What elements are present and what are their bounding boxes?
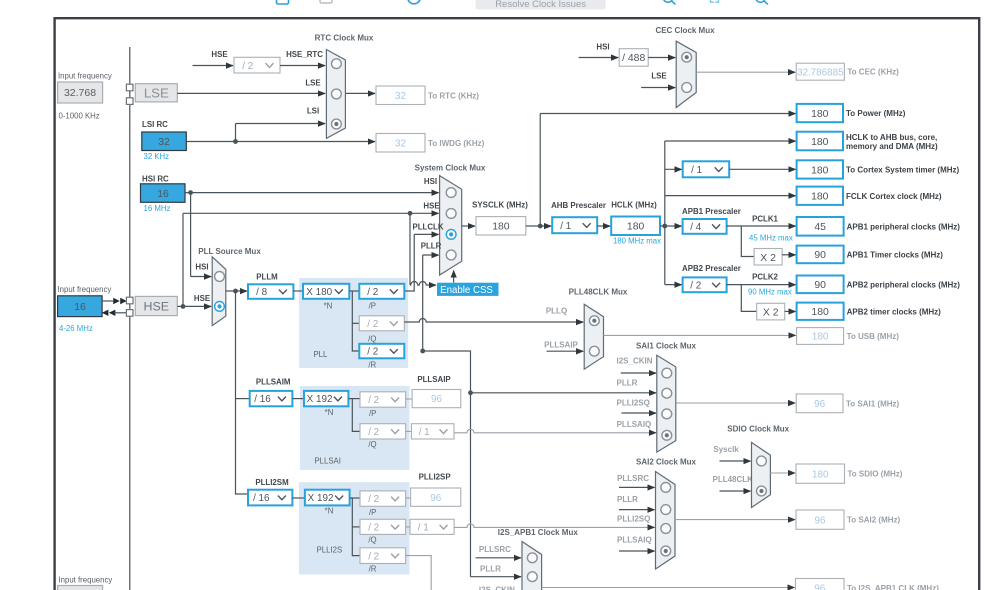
svg-text:PLLQ: PLLQ (546, 307, 567, 316)
svg-text:PLL48CLK: PLL48CLK (713, 475, 754, 484)
svg-text:PLLSAIQ: PLLSAIQ (617, 420, 652, 429)
svg-text:LSE: LSE (144, 85, 169, 100)
wire rail to cortex divider (665, 168, 682, 170)
svg-text:*N: *N (324, 301, 333, 310)
svg-text:/ 2: / 2 (368, 395, 379, 406)
svg-text:To SDIO (MHz): To SDIO (MHz) (848, 470, 903, 479)
svg-text:32.786885: 32.786885 (797, 67, 844, 78)
PLLSAIP box 96 (412, 390, 461, 408)
junction SYSCLK (538, 224, 543, 229)
svg-text:LSI RC: LSI RC (142, 120, 168, 129)
svg-text:To CEC (KHz): To CEC (KHz) (847, 68, 899, 77)
svg-text:/Q: /Q (368, 334, 376, 343)
APB2 peripheral box 90 (797, 276, 844, 294)
svg-text:PLLI2SQ: PLLI2SQ (617, 515, 650, 524)
toolbar icon fragment 3 (blue circle) (408, 0, 421, 4)
svg-text:APB1 Timer clocks (MHz): APB1 Timer clocks (MHz) (847, 250, 944, 259)
svg-text:AHB Prescaler: AHB Prescaler (551, 201, 606, 210)
svg-text:To IWDG (KHz): To IWDG (KHz) (428, 139, 485, 148)
toolbar Resolve Clock Issues button (476, 0, 606, 9)
wire P to PLLSAIP box (406, 398, 413, 400)
wire RTC mux to RTC box (346, 92, 375, 94)
svg-text:HSE: HSE (144, 300, 169, 314)
svg-text:PLLSAIP: PLLSAIP (544, 341, 578, 350)
junction HSE out (181, 304, 186, 309)
svg-text:/ 16: / 16 (253, 493, 270, 504)
wire PLLR to SAI1 mux (471, 392, 657, 394)
wire PLL48CLK stub to SDIO mux (720, 490, 751, 492)
PLL branch wires (349, 290, 359, 292)
svg-text:/Q: /Q (368, 440, 376, 449)
svg-text:PLLI2SM: PLLI2SM (255, 478, 289, 487)
svg-text:/ 1: / 1 (560, 221, 571, 232)
svg-text:96: 96 (814, 584, 825, 590)
SDIO clock mux (752, 442, 771, 507)
PLLR rail down wire (470, 393, 472, 577)
wire LSE to RTC mux (177, 92, 325, 94)
wire rail to PLLSAIM (236, 398, 250, 400)
svg-text:APB2 timer clocks (MHz): APB2 timer clocks (MHz) (847, 307, 942, 316)
RTC clock mux (326, 50, 345, 139)
PLL Q dropdown /2 (359, 316, 404, 331)
wire APB2 to X2 (741, 285, 756, 312)
svg-text:Input frequency: Input frequency (58, 285, 112, 294)
LSE source box (135, 84, 177, 102)
HCLK to AHB box 180 (797, 132, 843, 151)
CEC divider box /488 (619, 49, 648, 66)
svg-text:90: 90 (814, 280, 826, 291)
wire cortex divider to box (729, 168, 795, 170)
svg-text:PLL Source Mux: PLL Source Mux (198, 247, 261, 256)
svg-text:PLLSRC: PLLSRC (617, 474, 649, 483)
APB2 timer box 180 (797, 303, 844, 320)
svg-text:PLLSAIP: PLLSAIP (417, 375, 450, 384)
wire PLLSAIM to N (292, 398, 304, 400)
SAI2 clock mux (656, 472, 676, 570)
svg-text:SAI2 Clock Mux: SAI2 Clock Mux (636, 458, 697, 467)
svg-text:HCLK to AHB bus, core,: HCLK to AHB bus, core, (846, 133, 937, 142)
wire APB1 to X2 (741, 226, 754, 257)
wire I2S mux to I2S box (542, 587, 795, 589)
wire APB1 to box (727, 225, 796, 227)
wire /2 to RTC mux (280, 65, 325, 67)
I2S_APB1 clock mux (522, 542, 542, 590)
wire PLL /P to PLLCLK input (404, 234, 414, 291)
To Cortex box 180 (797, 160, 843, 178)
junction PLLM rail (233, 289, 238, 294)
PLLM dropdown /8 (248, 284, 293, 299)
svg-text:180: 180 (811, 137, 829, 148)
svg-text:96: 96 (814, 399, 825, 410)
wire PLLSAIP stub to PLL48 mux (547, 350, 584, 352)
svg-text:PLLI2SQ: PLLI2SQ (617, 399, 650, 408)
svg-text:90 MHz max: 90 MHz max (748, 288, 792, 297)
PLLSAI N dropdown X192 (304, 391, 348, 406)
wire PLLSAIQ stub to SAI2 (619, 550, 655, 552)
svg-text:X 192: X 192 (308, 493, 334, 504)
HCLK box 180 (611, 217, 660, 236)
wire PLL48 mux to USB (604, 334, 796, 336)
To SAI2 box 96 (796, 510, 844, 529)
LSE port squares (126, 84, 133, 91)
svg-text:RTC Clock Mux: RTC Clock Mux (315, 34, 374, 43)
svg-text:/R: /R (369, 565, 377, 574)
PLLSAI P dropdown /2 (360, 392, 406, 407)
SAI1 clock mux (657, 355, 676, 452)
svg-text:PLLSAI: PLLSAI (314, 456, 340, 465)
svg-text:PLL48CLK Mux: PLL48CLK Mux (569, 288, 628, 297)
wire PLL /R to PLLR input (422, 255, 424, 351)
PLLSAIM dropdown /16 (250, 391, 293, 406)
APB1 timer box 90 (797, 246, 844, 264)
System clock mux (440, 176, 462, 275)
svg-text:I2S_APB1 Clock Mux: I2S_APB1 Clock Mux (498, 528, 579, 537)
toolbar icon fragment 2 (gray square) (320, 0, 332, 3)
PLLSAI panel (300, 386, 409, 470)
wire SAI2 mux to SAI2 box (675, 519, 795, 521)
wire PLL mux to PLLM (226, 290, 247, 292)
svg-text:96: 96 (430, 493, 441, 504)
LSI RC box 32 (142, 132, 187, 151)
svg-text:/Q: /Q (368, 536, 376, 545)
svg-text:PLLSAIM: PLLSAIM (256, 378, 291, 387)
wire Enable CSS up arrow (453, 271, 455, 283)
APB2 X2 box (757, 303, 785, 320)
svg-text:180: 180 (627, 222, 645, 233)
svg-text:APB1 Prescaler: APB1 Prescaler (682, 207, 741, 216)
svg-text:PLLCLK: PLLCLK (412, 223, 443, 232)
junction LSI (233, 139, 238, 144)
wire HSI RC to system mux (185, 192, 439, 194)
svg-text:180 MHz max: 180 MHz max (613, 237, 661, 246)
PLLI2S panel (299, 482, 409, 574)
svg-text:CEC Clock Mux: CEC Clock Mux (655, 26, 715, 35)
svg-text:HSE: HSE (211, 50, 227, 59)
svg-text:/ 1: / 1 (419, 427, 430, 438)
PLL N dropdown X180 (303, 284, 349, 299)
wire PLLR to SAI rail (423, 351, 471, 393)
HSI RC box 16 (141, 184, 186, 203)
bottom input frequency box (cut) (58, 586, 103, 590)
svg-text:/ 2: / 2 (242, 61, 253, 72)
PLLSAI Q post divider /1 (411, 424, 454, 439)
wire I2S_CKIN stub to SAI1 (621, 372, 656, 374)
wire LSI RC to IWDG (186, 141, 375, 143)
svg-text:32: 32 (395, 91, 406, 102)
svg-text:PLLM: PLLM (256, 273, 278, 282)
To I2S_APB1 box 96 (796, 579, 845, 590)
toolbar icon fragment 1 (blue square) (277, 0, 289, 4)
svg-text:I2S_CKIN: I2S_CKIN (479, 586, 515, 590)
svg-text:PLLSRC: PLLSRC (479, 545, 511, 554)
svg-text:PLL: PLL (313, 350, 328, 359)
PLLI2S Q post divider /1 (410, 519, 454, 534)
svg-text:/ 1: / 1 (418, 522, 429, 533)
svg-text:HSE: HSE (194, 294, 210, 303)
toolbar icon magnifier 2 (756, 0, 766, 2)
svg-text:HSI: HSI (596, 43, 609, 52)
svg-text:32.768: 32.768 (64, 87, 96, 99)
svg-text:PLLR: PLLR (617, 379, 638, 388)
wire PLLQ to PLL48 mux (404, 319, 583, 322)
svg-text:/ 2: / 2 (368, 494, 379, 505)
svg-text:32 KHz: 32 KHz (144, 152, 170, 161)
svg-text:PCLK2: PCLK2 (752, 272, 778, 281)
wire PLLSRC stub to SAI2 (619, 486, 655, 488)
Enable CSS button (437, 283, 499, 296)
toolbar icon brackets (711, 0, 719, 2)
svg-text:90: 90 (814, 250, 826, 261)
HSE port squares (126, 297, 133, 304)
PLLSAI Q dropdown /2 (360, 424, 406, 439)
wire HSI to /488 (579, 57, 619, 59)
PLLI2S P dropdown /2 (360, 491, 406, 506)
wire X2 to APB2 timer box (785, 310, 796, 312)
svg-text:PLLR: PLLR (480, 565, 501, 574)
svg-text:PCLK1: PCLK1 (752, 215, 778, 224)
svg-text:/ 8: / 8 (256, 287, 267, 298)
RTC HSE divider dropdown /2 (234, 57, 280, 73)
svg-text:/ 2: / 2 (368, 522, 379, 533)
svg-text:16: 16 (157, 189, 169, 200)
svg-text:X 2: X 2 (760, 253, 776, 264)
svg-text:Input frequency: Input frequency (58, 72, 112, 81)
svg-text:To RTC (KHz): To RTC (KHz) (428, 91, 479, 100)
input rail wire (129, 47, 131, 590)
APB2 prescaler dropdown /2 (683, 277, 727, 292)
svg-text:Enable CSS: Enable CSS (440, 285, 493, 296)
wire HSE to system mux (182, 213, 184, 306)
svg-text:180: 180 (811, 165, 829, 176)
svg-text:HCLK (MHz): HCLK (MHz) (611, 201, 657, 210)
svg-text:/ 16: / 16 (254, 394, 271, 405)
wire PLLI2SM to N (292, 497, 305, 499)
svg-text:96: 96 (431, 394, 442, 405)
junction HSE riser top (408, 211, 413, 216)
To Power box 180 (797, 104, 843, 122)
svg-text:/P: /P (369, 409, 376, 418)
svg-text:System Clock Mux: System Clock Mux (415, 164, 486, 173)
svg-text:X 192: X 192 (307, 394, 333, 405)
junction HSI (188, 190, 193, 195)
junction PLLR (420, 349, 425, 354)
svg-text:180: 180 (812, 332, 829, 343)
svg-text:4-26 MHz: 4-26 MHz (59, 324, 93, 333)
svg-text:16: 16 (74, 302, 86, 313)
APB1 prescaler dropdown /4 (683, 219, 727, 234)
svg-text:/ 2: / 2 (368, 427, 379, 438)
svg-text:SDIO Clock Mux: SDIO Clock Mux (727, 425, 789, 434)
svg-text:180: 180 (492, 222, 510, 233)
PLLI2S branch wires (350, 497, 360, 499)
HSE input frequency box 16 (58, 296, 103, 317)
svg-text:PLLR: PLLR (421, 242, 442, 251)
wire Sysclk stub to SDIO mux (720, 460, 751, 462)
junction HCLK (662, 224, 667, 229)
CEC clock mux (676, 41, 696, 107)
svg-text:X 2: X 2 (763, 308, 779, 319)
svg-text:180: 180 (811, 307, 829, 318)
wire PLLSAIQ to SAI1 mux (454, 429, 656, 433)
PLLM rail wire (236, 291, 249, 494)
svg-text:PLLI2SP: PLLI2SP (419, 472, 451, 481)
svg-text:45: 45 (814, 222, 826, 233)
PLLI2S Q dropdown /2 (360, 519, 406, 534)
wire HSI to PLL mux (190, 193, 192, 277)
svg-text:LSE: LSE (305, 79, 320, 88)
svg-text:APB2 peripheral clocks (MHz): APB2 peripheral clocks (MHz) (847, 280, 961, 289)
wire CEC mux to CEC box (696, 71, 795, 73)
svg-text:PLLI2S: PLLI2S (317, 546, 343, 555)
wire rail to FCLK box (665, 195, 796, 197)
wire SDIO mux to SDIO box (770, 472, 795, 474)
svg-text:*N: *N (325, 408, 334, 417)
svg-text:/P: /P (369, 508, 376, 517)
svg-text:To SAI1 (MHz): To SAI1 (MHz) (846, 399, 900, 408)
svg-text:To USB (MHz): To USB (MHz) (847, 332, 900, 341)
svg-text:FCLK Cortex clock (MHz): FCLK Cortex clock (MHz) (846, 192, 942, 201)
svg-text:96: 96 (815, 515, 826, 526)
To SAI1 box 96 (796, 394, 843, 413)
svg-text:Sysclk: Sysclk (713, 445, 739, 454)
wire rail to HCLK AHB box (665, 140, 796, 142)
To USB box 180 (797, 328, 844, 345)
svg-text:/R: /R (368, 361, 376, 370)
svg-text:/ 2: / 2 (367, 319, 378, 330)
svg-text:180: 180 (812, 469, 829, 480)
svg-text:/ 2: / 2 (368, 551, 379, 562)
wire LSE to CEC mux (641, 87, 675, 89)
wire PLLR to I2S mux (471, 576, 522, 578)
svg-text:0-1000 KHz: 0-1000 KHz (59, 112, 100, 121)
svg-text:LSE: LSE (651, 72, 666, 81)
svg-text:/ 488: / 488 (622, 53, 645, 64)
PLL panel (299, 278, 408, 368)
svg-text:/ 4: / 4 (690, 222, 701, 233)
svg-text:/ 2: / 2 (367, 287, 378, 298)
LSE input frequency box 32.768 (58, 82, 103, 103)
PLLI2S R dropdown /2 (360, 548, 406, 564)
SYSCLK box 180 (476, 217, 526, 235)
svg-text:SAI1 Clock Mux: SAI1 Clock Mux (636, 341, 697, 350)
svg-text:To Power (MHz): To Power (MHz) (846, 109, 906, 118)
AHB prescaler dropdown /1 (552, 217, 597, 233)
svg-text:APB1 peripheral clocks (MHz): APB1 peripheral clocks (MHz) (847, 222, 961, 231)
HSE double arrows left (102, 310, 116, 316)
svg-text:/P: /P (369, 301, 376, 310)
svg-text:Resolve Clock Issues: Resolve Clock Issues (495, 0, 586, 10)
svg-text:To SAI2 (MHz): To SAI2 (MHz) (847, 516, 901, 525)
svg-text:To I2S_APB1 CLK (MHz): To I2S_APB1 CLK (MHz) (847, 584, 939, 590)
cortex divider dropdown /1 (683, 161, 730, 177)
svg-text:HSI: HSI (195, 262, 208, 271)
wire system mux to SYSCLK box (462, 225, 475, 227)
svg-text:I2S_CKIN: I2S_CKIN (617, 357, 653, 366)
svg-text:PLLR: PLLR (617, 495, 638, 504)
svg-text:Input frequency: Input frequency (59, 576, 113, 585)
svg-text:HSE: HSE (423, 202, 439, 211)
wire HSE box to PLL mux (177, 305, 211, 307)
wire SYSCLK to AHB prescaler (526, 225, 551, 227)
To IWDG box 32 (376, 134, 425, 153)
PLLI2SP box 96 (411, 488, 461, 506)
wire PLLI2SQ stub to SAI1 (622, 412, 657, 414)
svg-text:180: 180 (811, 109, 829, 120)
wire LSI riser to RTC mux (235, 124, 237, 142)
wire APB2 to box (727, 284, 796, 286)
svg-text:/ 1: / 1 (691, 165, 702, 176)
svg-text:/ 2: / 2 (367, 347, 378, 358)
wire Q to /1 (406, 430, 412, 432)
svg-text:To Cortex System timer (MHz): To Cortex System timer (MHz) (846, 165, 960, 174)
wire P to PLLI2SP box (406, 497, 411, 499)
wire AHB to HCLK box (597, 225, 610, 227)
To CEC box (796, 63, 844, 80)
APB1 X2 box (754, 249, 782, 266)
PLLI2S N dropdown X192 (305, 490, 350, 506)
svg-text:32: 32 (158, 137, 170, 148)
PLL R dropdown /2 (359, 344, 404, 359)
wire SAI1 mux to SAI1 box (677, 402, 796, 404)
svg-text:APB2 Prescaler: APB2 Prescaler (682, 264, 741, 273)
wire PLLSRC stub to I2S mux (476, 557, 522, 559)
wire /488 to CEC mux (648, 57, 675, 59)
wire PLLR stub to SAI2 (619, 509, 655, 511)
svg-text:memory and DMA (MHz): memory and DMA (MHz) (846, 142, 938, 151)
svg-text:SYSCLK (MHz): SYSCLK (MHz) (472, 201, 528, 210)
HSE source box (135, 296, 177, 315)
HSE double arrows right (113, 298, 127, 304)
PLL48CLK mux (584, 304, 603, 369)
To RTC box 32 (376, 86, 425, 105)
HCLK rail wire (664, 141, 666, 285)
wire SYSCLK to Power (539, 114, 541, 227)
APB1 peripheral box 45 (797, 217, 844, 236)
PLLSAI branch wires (348, 398, 360, 400)
svg-text:X 180: X 180 (306, 287, 332, 298)
wire Q to /1 (406, 526, 410, 528)
wire PLLM to N (293, 290, 303, 292)
svg-text:16 MHz: 16 MHz (144, 204, 171, 213)
svg-text:180: 180 (811, 192, 829, 203)
wire HSE to Enable CSS (409, 213, 411, 285)
svg-text:HSE_RTC: HSE_RTC (286, 50, 323, 59)
wire rail to APB2 prescaler (665, 284, 682, 286)
junction PLLR SAI rail (468, 390, 473, 395)
svg-text:45 MHz max: 45 MHz max (749, 233, 793, 242)
wire HCLK to APB column (660, 225, 682, 227)
svg-text:PLLSAIQ: PLLSAIQ (617, 536, 652, 545)
PLL P dropdown /2 (359, 284, 404, 299)
svg-text:*N: *N (325, 507, 334, 516)
svg-text:HSI: HSI (424, 177, 437, 186)
toolbar icon magnifier 1 (663, 0, 673, 2)
wire PLLI2S R down (406, 556, 432, 590)
svg-text:32: 32 (395, 138, 406, 149)
FCLK box 180 (797, 187, 843, 205)
wire PLLI2SQ to SAI2 mux (454, 524, 654, 528)
svg-text:/ 2: / 2 (690, 280, 701, 291)
svg-text:HSI RC: HSI RC (142, 175, 169, 184)
svg-text:LSI: LSI (307, 107, 319, 116)
wire X2 to APB1 timer box (782, 254, 796, 256)
wire HSE to /2 divider (193, 65, 234, 67)
PLL source mux (212, 257, 226, 326)
To SDIO box 180 (796, 464, 845, 483)
PLLI2SM dropdown /16 (248, 490, 292, 506)
